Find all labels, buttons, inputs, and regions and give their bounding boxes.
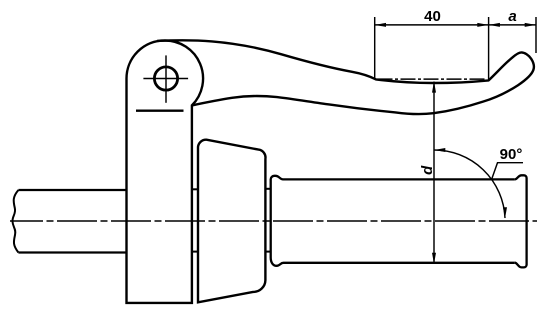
arrowhead right at a — [525, 23, 536, 27]
arrowhead d bottom — [432, 253, 436, 264]
handlebar edge segment between bracket and hood (top) — [191, 188, 199, 190]
dimension line 40 and a — [375, 24, 536, 26]
brake lever blade outline — [157, 40, 534, 114]
rubber hood (trapezoid) — [198, 140, 266, 303]
grip — [271, 176, 515, 266]
dash-dot line on lever flat — [378, 78, 487, 80]
handlebar break line — [12, 190, 18, 253]
pivot hole circle — [154, 67, 177, 90]
grip end cap — [515, 175, 527, 267]
svg-text:90°: 90° — [500, 146, 523, 163]
arrowhead arc bottom (pointing down) — [503, 207, 507, 218]
pivot crosshair horizontal — [143, 78, 188, 80]
dimension line d vertical — [433, 82, 435, 264]
arrowhead arc top (pointing left) — [434, 148, 445, 152]
leader line for 90 — [491, 163, 523, 181]
handlebar edge segment between hood and grip (bottom) — [266, 251, 270, 253]
90 degree arc — [434, 150, 505, 218]
centerline of handlebar — [10, 220, 537, 222]
svg-text:a: a — [508, 8, 516, 25]
handlebar edge segment between bracket and hood (bottom) — [191, 251, 199, 253]
edge line below pivot — [136, 110, 184, 112]
svg-text:40: 40 — [424, 8, 441, 25]
arrowhead d top — [432, 81, 436, 92]
svg-text:d: d — [419, 165, 436, 175]
arrowhead left at a — [489, 23, 500, 27]
arrowhead right at 40 — [477, 23, 488, 27]
arrowhead left at 40 — [375, 23, 386, 27]
extension line left of 40 dimension — [374, 17, 376, 80]
handlebar tube bottom edge — [18, 251, 127, 253]
handlebar tube top edge — [18, 189, 127, 191]
pivot crosshair vertical — [165, 55, 167, 102]
extension line between 40 and a — [488, 17, 490, 80]
handlebar edge segment between hood and grip (top) — [266, 188, 270, 190]
clamp bracket with pivot boss — [127, 40, 204, 302]
extension line right of a — [535, 17, 537, 53]
